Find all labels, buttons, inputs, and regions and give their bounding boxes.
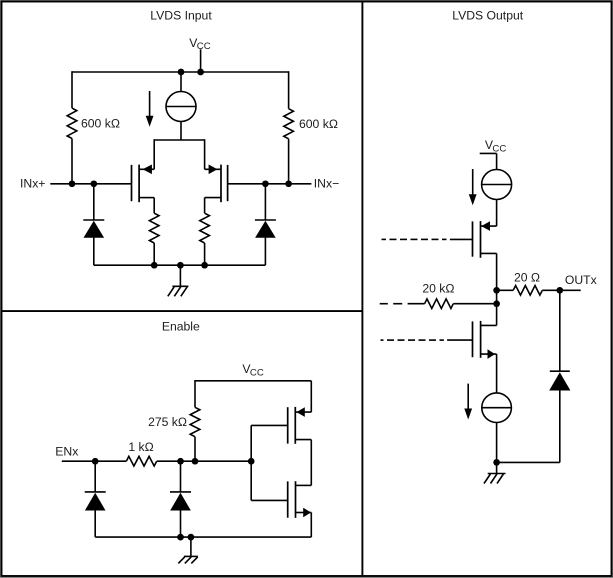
junction INx- / D2 [262,180,269,187]
junction INx- / R2 [285,180,292,187]
ground (input panel) [168,265,189,296]
wire drain bar [154,139,204,169]
wire current source feed [180,72,182,92]
wire rail to R5 [194,380,196,407]
wire bottom rail [94,264,266,266]
wire Q4 gate line [251,499,288,501]
wire ENx line to gates [157,460,252,462]
wire R3 to rail [153,243,155,265]
label 600 kOhm left [81,116,120,130]
transistor Q3 arrow [297,407,305,417]
transistor Q4 gate bar [287,481,289,517]
wire Q4 source to rail [310,513,312,538]
transistor Q3 source stub [295,411,311,413]
wire VCC stem [200,49,202,72]
diode D5 [549,371,570,390]
transistor Q4 arrow [303,508,311,518]
transistor Q1 source stub [139,198,154,214]
junction output node / 20 Ohm [493,287,500,294]
transistor Q6 source stub [481,353,497,355]
svg-text:LVDS Output: LVDS Output [452,9,524,23]
wire VCC rail enable [195,380,311,382]
svg-text:1 kΩ: 1 kΩ [128,440,153,454]
resistor R7 20 kOhm [425,299,454,309]
title LVDS Output [452,9,524,23]
title LVDS Input [150,9,212,23]
junction INx+ / D1 [90,180,97,187]
junction ground node [493,459,500,466]
svg-text:275 kΩ: 275 kΩ [148,415,187,429]
wire I3 to ground node [496,423,498,463]
diode D3 [85,461,106,537]
wire current source out [180,121,182,140]
svg-text:INx+: INx+ [20,177,45,191]
transistor Q2 drain stub [205,168,221,170]
label 20 kOhm [422,281,454,295]
label 275 kOhm [148,415,187,429]
current source I2 [482,170,512,200]
svg-text:Enable: Enable [162,320,200,334]
wire OUTx lead [560,289,581,291]
label 20 Ohm [514,270,540,284]
label 600 kOhm right [299,117,338,131]
wire Q3 drain to Q4 drain [310,440,312,486]
wire right 600k bottom [288,139,290,184]
wire INx- gate line [228,183,312,185]
transistor Q1 channel bar [138,165,140,203]
current source I1 [166,92,196,122]
wire I2 to Q5 [496,199,498,226]
wire Q6 source to I3 [496,354,498,393]
svg-text:INx−: INx− [314,177,339,191]
resistor R3 source left [149,213,159,243]
wire 20k gate dashed [380,303,425,305]
wire VCC to I2 [496,153,498,169]
svg-text:600 kΩ: 600 kΩ [81,116,120,130]
transistor Q2 channel bar [220,165,222,203]
VCC label (input panel) [189,36,210,52]
transistor Q6 gate bar [472,321,474,357]
wire gate bus [250,425,252,500]
junction VCC tap [197,69,204,76]
junction ENx / D3 [92,458,99,465]
label INx+ [20,177,45,191]
junction 20k / output stack [493,300,500,307]
transistor Q6 channel bar [480,321,482,358]
svg-text:20 kΩ: 20 kΩ [422,281,454,295]
wire ENx lead [62,460,127,462]
wire diode branch lower [559,390,561,463]
junction ENx / R5 [192,458,199,465]
junction rail / R4 [201,262,208,269]
junction ENx / D4 [177,458,184,465]
resistor R8 20 Ohm [513,286,542,296]
wire R5 to ENx line [194,437,196,462]
current arrow I2 [469,169,477,205]
resistor R6 1 kOhm [126,456,156,466]
svg-text:OUTx: OUTx [565,273,597,287]
wire Q5 gate dashed [382,238,473,240]
junction current-source tap [178,69,185,76]
transistor Q2 source stub [205,198,221,214]
junction rail / ground [177,262,184,269]
transistor Q5 drain stub [481,225,497,227]
junction rail / R3 [151,262,158,269]
wire R4 to rail [204,243,206,265]
junction rail / D4 [177,534,184,541]
junction rail / ground [188,534,195,541]
transistor Q2 arrow [209,165,218,175]
transistor Q3 gate bar [287,407,289,443]
transistor Q6 drain stub [481,324,497,326]
transistor Q6 arrow [488,349,496,359]
VCC label (output panel) [485,138,506,154]
wire R8 to OUTx [542,289,560,291]
wire to R8 [497,289,514,291]
transistor Q5 arrow [481,221,490,231]
horizontal panel divider [2,310,363,312]
transistor Q1 gate bar [131,165,133,201]
transistor Q4 source stub [296,512,312,514]
VCC label (enable panel) [242,362,263,378]
current arrow I1 [146,91,154,127]
wire right 600k top [288,71,290,109]
transistor Q4 drain stub [296,484,312,486]
wire left 600k top [71,71,73,108]
label 1 kOhm [128,440,153,454]
resistor R5 275 kOhm [190,407,200,436]
wire VCC bar [480,152,497,154]
transistor Q5 channel bar [480,221,482,258]
svg-text:CC: CC [197,41,211,52]
wire Q6 gate dashed [381,339,473,341]
resistor R1 600 kOhm left [67,108,77,138]
resistor R2 600 kOhm right [284,109,294,139]
wire INx+ gate line [50,183,131,185]
label ENx [55,444,78,458]
transistor Q1 arrow [143,165,152,175]
current source I3 [482,393,512,423]
current arrow I3 [464,384,472,420]
ground (enable panel) [178,537,198,563]
wire Q3 gate line [251,424,288,426]
label INx- [314,177,339,191]
transistor Q1 drain stub [139,168,154,170]
transistor Q5 source stub [481,252,497,254]
resistor R4 source right [200,213,210,243]
diode D4 [170,461,191,537]
svg-text:CC: CC [250,368,264,379]
svg-text:600 kΩ: 600 kΩ [299,117,338,131]
wire Q5 source down to output node [496,253,498,325]
wire Q3 source to rail [310,381,312,412]
diode D2 [255,184,276,265]
transistor Q3 drain stub [295,439,311,441]
transistor Q3 channel bar [294,407,296,444]
wire diode branch upper [559,290,561,371]
svg-text:ENx: ENx [55,444,78,458]
wire R7 to node [453,303,496,305]
transistor Q2 gate bar [227,165,229,201]
junction OUTx node [556,287,563,294]
transistor Q5 gate bar [472,221,474,256]
svg-text:20 Ω: 20 Ω [514,270,540,284]
label OUTx [565,273,597,287]
title Enable [162,320,200,334]
ground (output panel) [484,462,506,483]
diode D1 [83,184,104,265]
transistor Q4 channel bar [295,481,297,518]
wire top supply rail [72,71,289,73]
wire left 600k bottom [71,139,73,184]
junction ENx / gate bus [248,458,255,465]
svg-text:LVDS Input: LVDS Input [150,9,212,23]
vertical panel divider [361,2,363,577]
junction INx+ / R1 [69,180,76,187]
wire ground node to diode branch [497,461,560,463]
wire enable bottom rail [95,536,311,538]
